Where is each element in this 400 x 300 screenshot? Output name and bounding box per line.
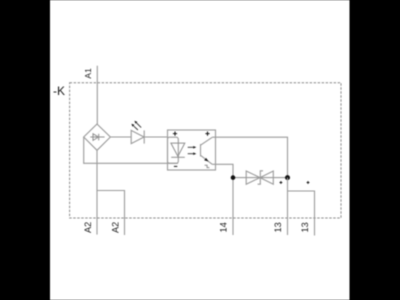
U1 emitter LED — [171, 143, 185, 157]
wire return bridge to U1 minus — [84, 137, 178, 163]
junction node 13 — [285, 175, 290, 180]
U1 light arrows — [188, 146, 197, 155]
svg-text:A1: A1 — [83, 68, 93, 79]
wire branch to second terminal 13 — [288, 191, 315, 236]
svg-text:A2: A2 — [111, 222, 121, 233]
polarity + (U1 output) — [205, 132, 209, 136]
semiconductor switch step symbol — [205, 165, 210, 167]
wire LED to optocoupler — [144, 136, 168, 138]
diode inside bridge B1 — [90, 134, 104, 141]
wire emitter to terminal 14 — [212, 164, 233, 235]
wire A1 input — [96, 66, 98, 124]
bridge rectifier B1 (diamond) — [84, 124, 111, 150]
polarity + (terminal 13 second) — [307, 181, 310, 184]
U1 emitter arrowhead — [204, 158, 208, 162]
U1 input loop (rounded rect) — [168, 137, 179, 163]
svg-text:13: 13 — [300, 222, 310, 232]
svg-text:-K: -K — [53, 84, 65, 98]
polarity + (U1 input) — [173, 132, 177, 136]
svg-text:A2: A2 — [83, 222, 93, 233]
TVS suppressor Z1 — [233, 171, 288, 184]
polarity - (U1 input) — [174, 165, 177, 167]
junction node 14 — [231, 175, 236, 180]
wire collector to node 13 — [212, 137, 287, 177]
page background — [50, 0, 350, 300]
svg-text:13: 13 — [273, 222, 283, 232]
module outline -K (dashed enclosure) — [70, 83, 341, 218]
wire bridge to LED — [110, 136, 131, 138]
wire node 13 to terminal 13 — [287, 178, 289, 235]
polarity + (terminal 13) — [280, 181, 283, 184]
svg-text:14: 14 — [219, 222, 229, 232]
U1 phototransistor — [201, 137, 213, 164]
wire branch to second terminal A2 — [97, 191, 125, 236]
optocoupler U1 box — [168, 130, 216, 170]
LED indicator V1 — [131, 121, 144, 144]
wire bridge to terminal A2 — [96, 150, 98, 234]
